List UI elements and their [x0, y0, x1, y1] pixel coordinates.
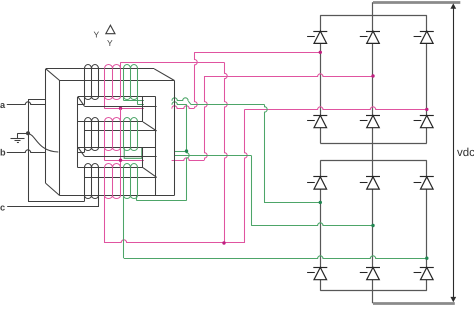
- svg-text:b: b: [0, 147, 6, 157]
- wire S3b left end drop: [123, 195, 125, 258]
- wire neutral curve into core: [28, 134, 58, 152]
- wire phase a drop to coil P1: [84, 97, 86, 105]
- wire phase b window segment: [78, 152, 85, 154]
- wire bridge2 left column: [320, 160, 322, 290]
- wire magenta long vertical: [225, 62, 228, 243]
- diode D3: [360, 31, 380, 43]
- ground: [11, 133, 29, 142]
- node magenta junction J2: [119, 159, 122, 162]
- svg-text:c: c: [0, 202, 5, 212]
- diode D4: [360, 115, 380, 127]
- wire neutral top stub: [28, 99, 46, 101]
- svg-text:Y: Y: [107, 38, 113, 48]
- wire S2a row horizontal: [104, 158, 204, 161]
- diode D7: [307, 177, 327, 190]
- wire S2b U-link: [124, 147, 142, 158]
- wire S3b right end riser: [136, 195, 138, 200]
- node green junction K2: [185, 149, 188, 152]
- wire green run B: [137, 102, 186, 105]
- diode D5: [414, 31, 434, 43]
- wire green stub at core edge: [175, 151, 187, 153]
- wire bridge1 middle column / series link / dc stubs: [372, 2, 374, 303]
- secondary winding S2a (magenta, limb 2): [105, 118, 121, 151]
- wire S1a-S2a link horizontal: [104, 106, 194, 109]
- secondary winding S2b (green, limb 2): [124, 118, 138, 151]
- primary winding P3 (black, limb 3): [85, 164, 99, 199]
- diode D11: [414, 177, 434, 190]
- wire S1a right end riser: [120, 62, 122, 69]
- wire bridge1 left column: [320, 15, 322, 143]
- diode D8: [307, 267, 327, 279]
- wire phase b input: [7, 150, 46, 153]
- transformer core: [144, 97, 172, 195]
- wire bridge2 phase2 (green): [251, 223, 373, 226]
- node neutral-ground junction: [26, 131, 30, 135]
- wire neutral bottom run: [28, 201, 85, 203]
- secondary winding S1a (magenta, limb 1): [105, 65, 121, 100]
- diode D2: [307, 115, 327, 127]
- wire dc positive rail: [373, 1, 460, 4]
- wire green vertical K1-K2: [187, 104, 190, 200]
- svg-text:Y: Y: [94, 30, 100, 40]
- node bridge2 phase2: [371, 224, 374, 227]
- wire magenta top run: [121, 62, 224, 64]
- wire green run A upper: [124, 98, 188, 101]
- wire bridge2 right column: [426, 160, 428, 290]
- svg-text:vdc: vdc: [457, 147, 474, 159]
- secondary winding S3a (magenta, limb 3): [105, 164, 121, 199]
- wire bridge1 phase1 (magenta): [194, 52, 320, 54]
- wire magenta drop to bridge1 phase1: [195, 52, 198, 108]
- diode D6: [414, 115, 434, 127]
- wire phase a input: [7, 102, 46, 105]
- wire bridge2 top rail: [320, 160, 427, 162]
- wire S3a left end drop: [104, 195, 106, 243]
- wire bridge2 bottom rail: [320, 290, 427, 292]
- node bridge1 phase3: [425, 108, 428, 111]
- wire bridge1 phase2 (magenta): [204, 74, 373, 77]
- node bridge2 phase1: [319, 201, 322, 204]
- diode D12: [414, 267, 434, 279]
- wire bridge1 bottom rail: [320, 143, 427, 145]
- diode D10: [360, 267, 380, 279]
- wire green drop to bridge2 phase1: [265, 104, 268, 202]
- node bridge1 phase2: [371, 74, 374, 77]
- node bridge1 phase1: [319, 51, 322, 54]
- secondary winding S1b (green, limb 1): [124, 65, 138, 100]
- primary winding P1 (black, limb 1): [85, 65, 99, 100]
- primary winding P2 (black, limb 2): [85, 118, 99, 151]
- wire S2a left end drop: [104, 147, 106, 160]
- wire neutral riser to coil P3: [84, 195, 86, 201]
- wire S1a left end drop: [104, 97, 106, 109]
- wire magenta drop to bridge1 phase2: [205, 76, 208, 160]
- wire magenta vertical J1 to J2: [120, 108, 122, 167]
- wire bridge2 phase1 (green): [264, 202, 320, 204]
- wire green ramp: [188, 101, 191, 105]
- diode D9: [360, 177, 380, 190]
- label delta secondary: [106, 25, 115, 34]
- wire phase a window segment: [78, 104, 85, 106]
- wire phase b drop to coil P2: [84, 147, 86, 152]
- diode D1: [307, 31, 327, 43]
- wire phase c riser to coil P3: [98, 195, 100, 206]
- wire green drop to bridge2 phase2: [251, 155, 253, 225]
- wire S1b left end drop: [123, 97, 125, 101]
- wire magenta bottom run: [104, 240, 244, 243]
- wire neutral vertical: [28, 99, 30, 201]
- secondary winding S3b (green, limb 3): [124, 164, 138, 199]
- wire bridge1 phase3 (magenta): [245, 107, 427, 110]
- node magenta junction J3: [222, 241, 225, 244]
- wire dc negative rail: [373, 302, 455, 305]
- wire bridge2 phase3 (green): [124, 256, 427, 259]
- wire phase c input: [7, 206, 99, 208]
- wire bridge1 top rail: [320, 15, 427, 17]
- wire S1b right end drop: [137, 97, 139, 105]
- wire bridge1 right column: [426, 15, 428, 143]
- wire green row2 horizontal: [175, 155, 252, 157]
- wire green link to S3b right end: [137, 200, 187, 202]
- svg-text:a: a: [0, 100, 6, 110]
- node bridge2 phase3: [425, 257, 428, 260]
- wire green run A lower: [191, 104, 264, 106]
- wire magenta riser to bridge1 phase3: [245, 109, 248, 243]
- node magenta junction J1: [119, 107, 122, 110]
- vdc measurement arrow: [450, 3, 456, 302]
